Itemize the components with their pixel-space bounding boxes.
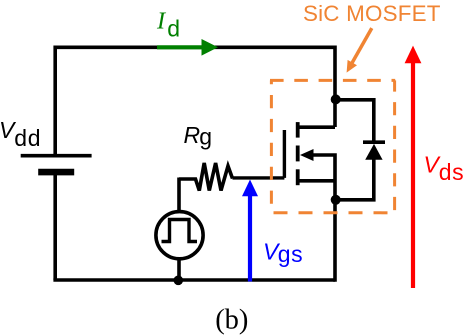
wire pulse source top lead — [177, 178, 181, 212]
node drain junction dot — [331, 94, 341, 104]
current arrow Id (green) — [157, 45, 204, 49]
wire left vertical upper — [53, 46, 57, 156]
transistor Q1 body arrow — [300, 149, 314, 161]
svg-text:SiC MOSFET: SiC MOSFET — [303, 1, 441, 26]
transistor Q1 source lead — [298, 179, 335, 183]
wire diode branch bottom — [336, 159, 374, 200]
transistor Q1 channel top segment — [296, 122, 300, 138]
voltage arrow Vds (red) — [411, 61, 415, 288]
svg-text:ds: ds — [439, 159, 463, 185]
svg-text:R: R — [184, 122, 201, 148]
transistor Q1 gate bar — [283, 130, 286, 178]
body diode anode triangle — [365, 144, 382, 160]
svg-text:dd: dd — [14, 125, 41, 151]
battery Vdd positive plate — [21, 154, 92, 158]
body diode cathode bar — [363, 140, 385, 144]
transistor Q1 drain lead — [298, 125, 335, 129]
wire pulse source bottom lead — [177, 258, 181, 280]
SiC MOSFET dashed enclosure box — [270, 79, 395, 82]
voltage arrow Vgs (blue) — [248, 194, 252, 282]
transistor Q1 channel middle segment — [296, 146, 300, 162]
wire bottom horizontal — [53, 278, 335, 282]
wire right vertical below source dot — [333, 200, 337, 282]
node source junction dot — [331, 195, 341, 205]
transistor Q1 body lead — [311, 155, 335, 200]
wire right vertical drain top — [333, 46, 337, 128]
wire left vertical lower — [53, 172, 57, 280]
svg-text:d: d — [167, 15, 180, 41]
wire diode branch top — [336, 100, 374, 142]
pulse source circle — [156, 212, 203, 259]
wire gate horizontal — [233, 176, 285, 179]
resistor Rg zigzag — [179, 163, 233, 191]
wire top horizontal — [55, 45, 335, 49]
svg-text:gs: gs — [278, 241, 303, 267]
battery Vdd negative plate — [38, 169, 74, 176]
transistor Q1 channel bottom segment — [296, 169, 300, 185]
annotation arrow to box (orange) — [351, 28, 372, 65]
svg-text:g: g — [199, 123, 212, 149]
pulse source waveform symbol — [162, 220, 198, 242]
svg-text:(b): (b) — [215, 305, 248, 336]
node bottom junction dot — [174, 276, 184, 286]
